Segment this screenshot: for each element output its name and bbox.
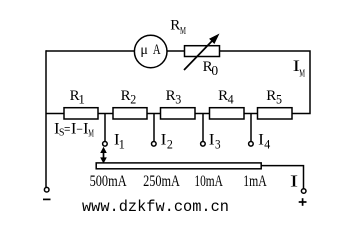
svg-text:I: I: [290, 172, 299, 191]
svg-text:4: 4: [228, 91, 234, 106]
svg-text:10mA: 10mA: [194, 173, 223, 190]
svg-text:1: 1: [78, 91, 85, 106]
svg-text:M: M: [88, 128, 94, 139]
svg-text:R: R: [166, 88, 176, 104]
svg-text:2: 2: [130, 91, 136, 106]
svg-text:3: 3: [215, 138, 221, 152]
svg-text:www.dzkfw.com.cn: www.dzkfw.com.cn: [82, 198, 229, 216]
svg-text:R: R: [121, 88, 131, 104]
svg-text:M: M: [180, 26, 186, 37]
svg-text:I: I: [209, 132, 215, 149]
svg-text:R: R: [170, 18, 180, 34]
svg-text:I: I: [161, 132, 167, 149]
svg-text:2: 2: [167, 138, 173, 152]
svg-text:A: A: [153, 42, 161, 58]
svg-text:R: R: [266, 88, 276, 104]
svg-text:250mA: 250mA: [143, 173, 180, 190]
svg-text:=: =: [64, 122, 70, 138]
svg-text:μ: μ: [140, 43, 148, 58]
svg-text:I: I: [258, 132, 264, 149]
svg-text:0: 0: [211, 63, 218, 78]
svg-text:−: −: [76, 122, 83, 138]
svg-text:1mA: 1mA: [243, 173, 267, 190]
svg-text:3: 3: [175, 91, 181, 106]
svg-text:5: 5: [276, 91, 282, 106]
svg-text:1: 1: [119, 138, 125, 152]
svg-text:4: 4: [264, 138, 271, 152]
svg-text:500mA: 500mA: [90, 173, 127, 190]
svg-text:M: M: [299, 69, 305, 80]
